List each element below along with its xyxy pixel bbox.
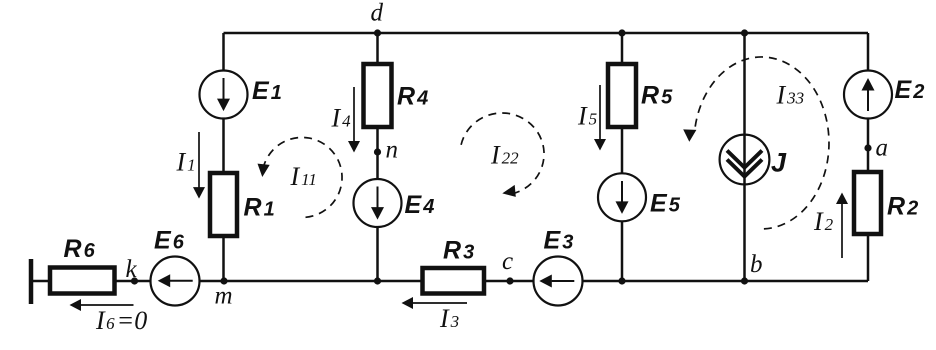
svg-text:R6: R6 (64, 235, 96, 263)
svg-text:d: d (371, 0, 384, 27)
svg-text:m: m (215, 283, 233, 310)
svg-text:E1: E1 (252, 77, 282, 105)
svg-text:a: a (876, 135, 889, 162)
svg-text:E3: E3 (544, 227, 574, 255)
svg-text:E6: E6 (154, 227, 185, 255)
svg-text:E5: E5 (650, 190, 681, 218)
svg-text:I6=0: I6=0 (95, 306, 147, 335)
svg-text:R4: R4 (397, 83, 428, 111)
svg-text:R5: R5 (641, 82, 673, 110)
svg-text:n: n (386, 137, 399, 164)
svg-text:E4: E4 (405, 191, 435, 219)
svg-text:b: b (750, 251, 763, 278)
svg-text:E2: E2 (895, 76, 925, 104)
svg-text:R2: R2 (887, 193, 918, 221)
svg-text:J: J (771, 148, 787, 178)
svg-text:k: k (126, 256, 138, 283)
svg-text:R1: R1 (244, 194, 275, 222)
svg-text:R3: R3 (443, 237, 474, 265)
svg-text:c: c (502, 248, 513, 275)
